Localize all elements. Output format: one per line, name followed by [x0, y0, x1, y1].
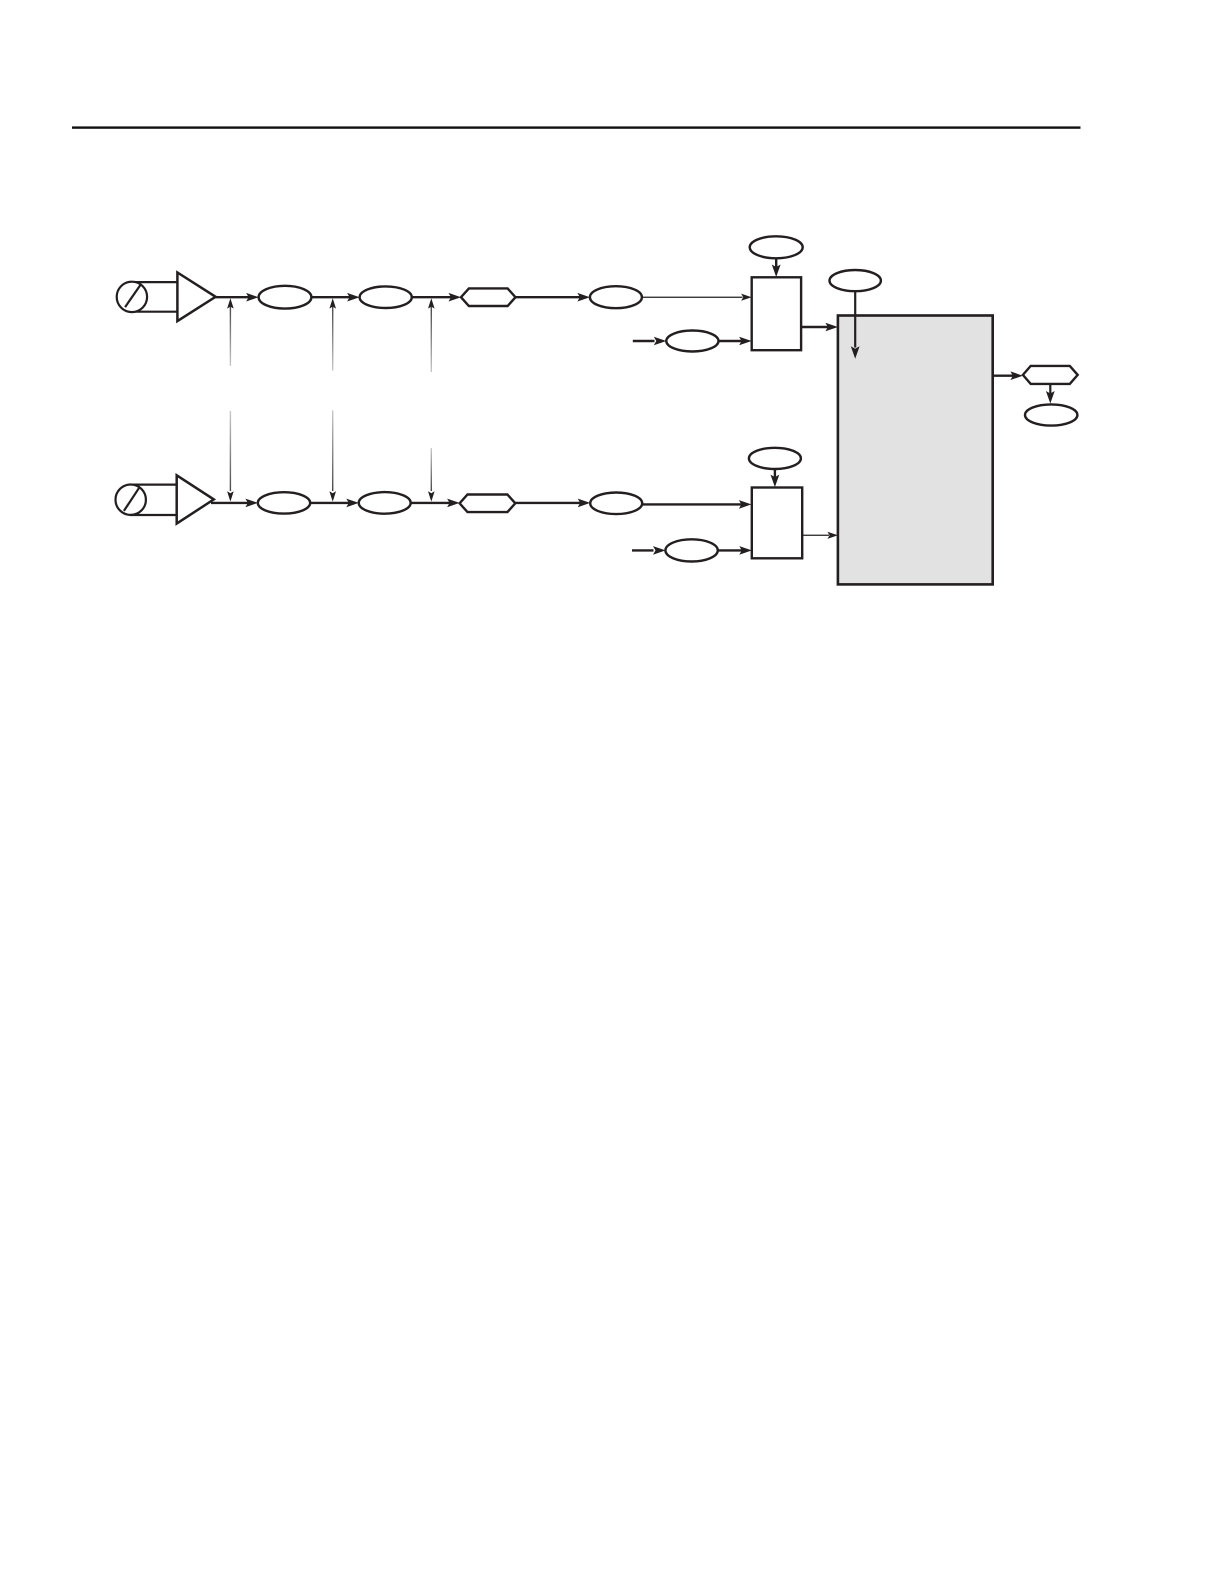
wire CH2 stage1 to stage2	[310, 499, 359, 508]
thin wire CH1 stage4 to effect rect	[642, 294, 752, 301]
arrow control ellipse into mixer	[851, 291, 860, 359]
shared control link 2 up arrow	[329, 298, 336, 370]
shared control link 2 down arrow	[329, 410, 336, 501]
thin wire rect CH2 to mixer	[802, 532, 838, 539]
shared control link 1 down arrow	[227, 411, 234, 502]
control ellipse mixer	[830, 270, 881, 291]
wire CH2 amp to stage1	[211, 499, 258, 508]
stage ellipse CH2-4	[590, 493, 642, 515]
wire side ellipse to rect CH2	[718, 546, 752, 555]
wire CH2 stage4 to effect rect	[642, 500, 751, 509]
shared control link 3 down arrow	[428, 448, 435, 502]
effect rect CH2	[752, 488, 802, 559]
wire CH2 hexagon to stage4	[515, 499, 590, 508]
wire rect CH1 to mixer	[801, 323, 838, 332]
mixer block	[838, 316, 993, 585]
amplifier CH2	[177, 475, 214, 523]
wire CH1 amp to stage1	[214, 293, 259, 302]
arrow control ellipse into rect CH2	[771, 469, 780, 487]
stage ellipse CH2-2	[359, 492, 411, 514]
mic input CH2	[116, 485, 177, 516]
side ellipse CH1	[666, 331, 718, 352]
side ellipse CH2	[665, 539, 717, 561]
wire CH1 hexagon to stage4	[516, 293, 590, 302]
stage ellipse CH2-1	[258, 492, 310, 513]
wire CH2 stage2 to hexagon	[411, 499, 460, 508]
control ellipse CH2	[749, 448, 801, 469]
header rule	[72, 126, 1081, 128]
wire side ellipse to rect CH1	[719, 337, 752, 346]
hexagon stage CH2	[460, 495, 516, 513]
stage ellipse CH1-2	[360, 286, 412, 308]
output ellipse	[1025, 404, 1077, 425]
shared control link 3 up arrow	[428, 298, 435, 372]
wire into side ellipse CH1	[633, 337, 667, 346]
stage ellipse CH1-1	[259, 286, 312, 309]
wire mixer to output hexagon	[993, 371, 1023, 380]
stage ellipse CH1-4	[590, 286, 642, 308]
wire into side ellipse CH2	[632, 546, 666, 555]
arrow control ellipse into rect CH1	[772, 258, 781, 277]
control ellipse CH1	[750, 236, 803, 258]
output hexagon	[1023, 366, 1078, 384]
wire CH1 stage1 to stage2	[311, 293, 359, 302]
effect rect CH1	[752, 277, 801, 350]
arrow hexagon to output ellipse	[1046, 384, 1055, 404]
shared control link 1 up arrow	[227, 298, 234, 366]
wire CH1 stage2 to hexagon	[412, 293, 461, 302]
amplifier CH1	[177, 273, 215, 322]
hexagon stage CH1	[461, 288, 516, 306]
mic input CH1	[117, 282, 178, 312]
